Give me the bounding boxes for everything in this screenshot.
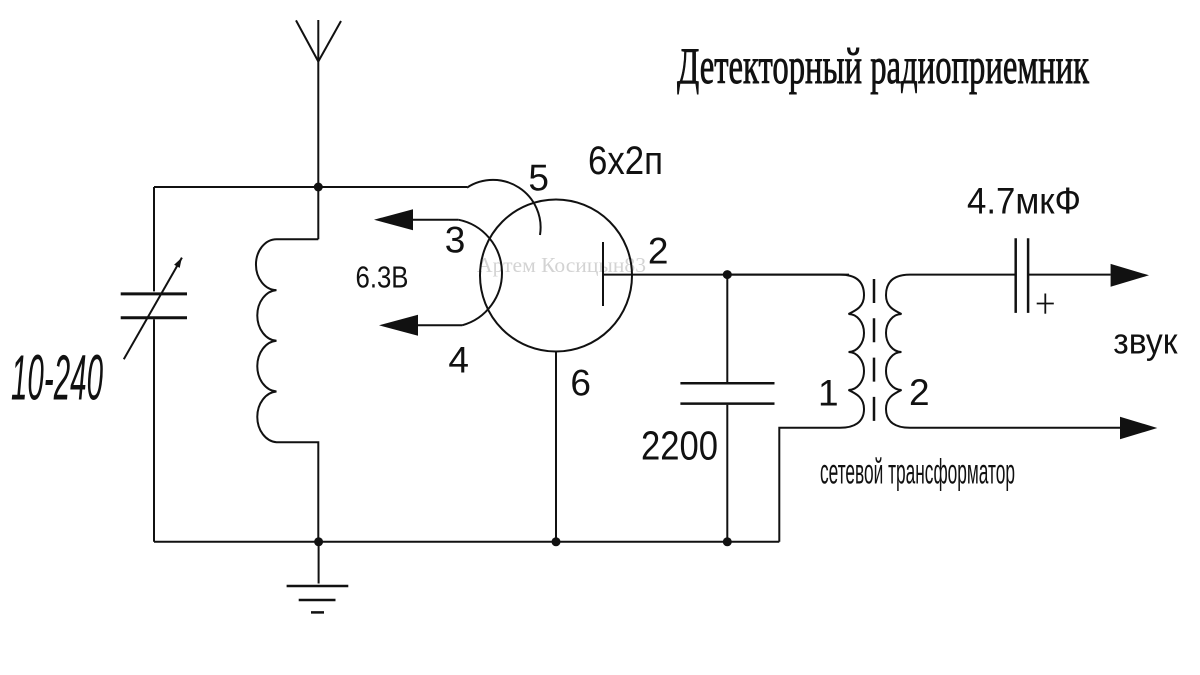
svg-text:3: 3 bbox=[445, 219, 466, 260]
svg-text:сетевой трансформатор: сетевой трансформатор bbox=[820, 452, 1015, 491]
svg-text:1: 1 bbox=[818, 373, 839, 414]
svg-text:2: 2 bbox=[909, 372, 930, 413]
svg-text:Детекторный радиоприемник: Детекторный радиоприемник bbox=[677, 39, 1089, 95]
svg-text:2200: 2200 bbox=[641, 423, 718, 469]
svg-text:10-240: 10-240 bbox=[11, 342, 103, 414]
svg-text:6.3В: 6.3В bbox=[356, 259, 409, 294]
svg-text:6: 6 bbox=[570, 362, 591, 403]
svg-text:звук: звук bbox=[1113, 320, 1177, 361]
svg-text:5: 5 bbox=[528, 157, 549, 198]
svg-text:4: 4 bbox=[448, 339, 469, 380]
svg-text:6х2п: 6х2п bbox=[588, 139, 663, 183]
svg-text:4.7мкФ: 4.7мкФ bbox=[967, 180, 1081, 222]
svg-text:2: 2 bbox=[648, 231, 669, 272]
